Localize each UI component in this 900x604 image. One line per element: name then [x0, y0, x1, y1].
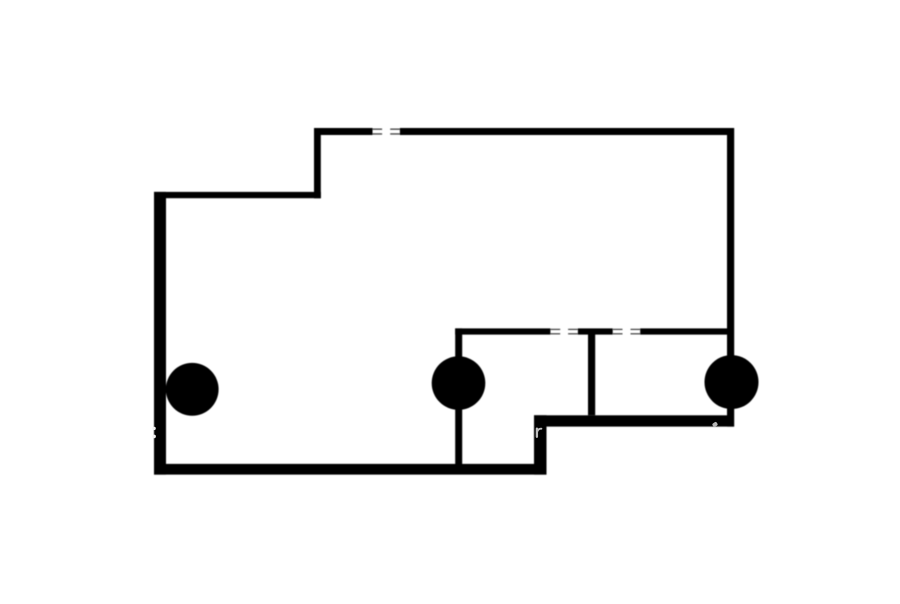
- wall exterior lower-right thick horizontal: [534, 415, 734, 426]
- wall interior vertical left: [455, 328, 462, 464]
- wall exterior bottom: [154, 464, 547, 475]
- window W3 lines: [550, 329, 560, 335]
- window W2 top lines: [390, 129, 400, 135]
- window W6 lines: [631, 329, 641, 335]
- wall interior horizontal, right segment: [640, 328, 727, 334]
- wall exterior right: [727, 128, 734, 427]
- wall exterior top, right segment: [400, 128, 734, 135]
- column circle middle: [432, 356, 486, 410]
- wall interior horizontal, middle segment: [578, 328, 613, 334]
- wall exterior bottom-right step vertical: [534, 415, 547, 474]
- wall exterior upper-left step vertical: [314, 128, 321, 198]
- column circle right: [705, 355, 759, 409]
- window W5 lines: [613, 329, 623, 335]
- wall exterior left: [154, 192, 166, 475]
- column circle left: [166, 363, 219, 416]
- window W1 top lines: [373, 129, 383, 135]
- wall exterior upper-left horizontal: [154, 192, 321, 198]
- wall interior horizontal, left segment: [455, 328, 550, 334]
- window W4 lines: [568, 329, 578, 335]
- watermark tick on lower-right wall: [712, 421, 718, 427]
- watermark letter r on step wall: [537, 429, 542, 437]
- wall interior vertical right: [588, 329, 595, 415]
- wall exterior top, left segment: [314, 128, 373, 135]
- watermark fragment on left wall: [152, 427, 156, 439]
